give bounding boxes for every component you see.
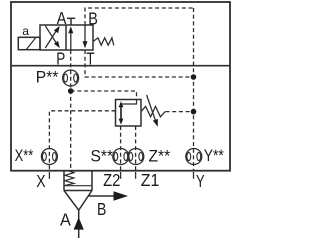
port stub X [48,172,50,179]
measuring point Y** [186,149,202,165]
external pilot line X [49,111,115,171]
main relief cartridge body [63,170,65,190]
port stub Z2 [120,172,122,179]
crossed-flow arrows in left box [45,28,58,48]
pilot relief adjustment arrow [147,95,156,121]
svg-text:B: B [88,9,98,29]
port B flow arrow [88,195,114,197]
drain line Y vertical [193,8,195,170]
svg-text:A: A [57,9,67,29]
B-to-T down arrow in right box [84,25,86,46]
svg-text:a: a [22,24,29,38]
measuring point Z** (Z1) [128,149,144,165]
directional valve body (two position boxes) [40,25,93,50]
pilot relief flow double arrow [120,104,122,122]
svg-text:S**: S** [91,147,114,166]
junction node drain/Y [191,109,197,115]
svg-text:X: X [36,171,46,191]
svg-text:Y: Y [196,172,205,192]
pilot branch to relief valve top [71,91,137,100]
svg-text:B: B [97,200,106,220]
svg-text:T: T [86,50,94,69]
junction node T/Y [191,74,197,80]
svg-text:X**: X** [15,146,34,165]
svg-text:Z1: Z1 [141,170,159,190]
vent line from B up and across [85,8,194,25]
port stub Y [193,172,195,179]
svg-text:Z2: Z2 [103,171,120,191]
svg-text:P**: P** [36,68,59,87]
measuring point P** [63,70,79,86]
pilot port line Z2 [120,126,122,170]
svg-text:Z**: Z** [149,147,171,166]
pilot port line Z1 [135,126,137,170]
svg-text:P: P [56,50,65,69]
P-to-A up arrow in right box [70,29,72,51]
junction node on P line [68,88,74,94]
spring chamber drain to Y [166,111,194,113]
svg-text:A: A [60,210,71,230]
port A flow arrow [78,210,80,238]
port stub Z1 [135,172,137,179]
plugged port A symbol [70,18,72,25]
pilot relief internal passage [122,100,137,105]
pilot relief spring [141,106,165,116]
enclosure outline (valve housing) [11,2,230,171]
measuring point S** (Z2) [113,149,129,165]
return spring of directional valve [93,38,114,46]
measuring point X** [41,149,57,165]
main valve spring [65,171,74,185]
main poppet seat funnel [64,191,92,211]
housing divider line [11,65,230,67]
pilot supply line P vertical [70,50,72,171]
svg-text:Y**: Y** [204,147,224,166]
tank line T to Y [85,50,194,77]
pilot relief valve body [116,100,142,127]
solenoid actuator a [18,37,40,49]
